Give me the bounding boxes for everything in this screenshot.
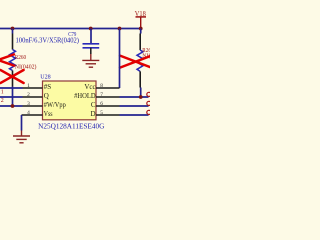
- junction dot rail-vcc: [118, 27, 122, 31]
- junction dot rail-right: [139, 27, 143, 31]
- svg-text:8: 8: [100, 83, 103, 89]
- no-fit cross X2: [0, 70, 23, 83]
- svg-text:C: C: [91, 101, 96, 109]
- svg-text:2: 2: [1, 98, 4, 104]
- wire vss down: [21, 115, 23, 131]
- wire right branch upper: [140, 29, 142, 34]
- resistor R260: [10, 50, 16, 71]
- svg-text:4: 4: [27, 110, 30, 116]
- pin 8: [96, 87, 120, 89]
- svg-text:NI(0402): NI(0402): [15, 64, 37, 71]
- svg-text:U28: U28: [40, 74, 51, 81]
- capacitor C79: [83, 44, 100, 48]
- svg-text:Q: Q: [44, 92, 49, 100]
- pin 3: [23, 105, 43, 107]
- pin 5: [96, 114, 120, 116]
- off-sheet connector row5: [147, 110, 151, 114]
- svg-text:5: 5: [100, 110, 103, 116]
- resistor R260 pin bottom: [12, 71, 14, 87]
- svg-text:1: 1: [27, 83, 30, 89]
- svg-text:Vss: Vss: [44, 110, 53, 118]
- capacitor pin bottom: [90, 48, 92, 54]
- wire row5 right: [120, 114, 149, 116]
- pin 2: [23, 96, 43, 98]
- junction dot rail-left: [11, 27, 15, 31]
- resistor R261: [137, 50, 143, 71]
- no-fit cross X1: [0, 54, 14, 65]
- svg-text:Vcc: Vcc: [84, 83, 95, 91]
- wire cap branch: [90, 29, 92, 44]
- wire row1 left: [0, 87, 23, 89]
- ground under Vss: [13, 131, 30, 143]
- pin 4: [22, 114, 43, 116]
- wire left branch lower: [12, 87, 14, 107]
- wire top power rail: [0, 28, 141, 30]
- no-fit cross X3: [120, 55, 153, 68]
- svg-text:100nF/6.3V/X5R(0402): 100nF/6.3V/X5R(0402): [16, 37, 80, 45]
- svg-text:6: 6: [100, 101, 103, 107]
- junction dot row7: [139, 95, 143, 99]
- resistor R261 pin top: [139, 34, 141, 51]
- wire right branch lower: [140, 88, 142, 98]
- svg-text:#W/Vpp: #W/Vpp: [44, 101, 66, 109]
- svg-text:#S: #S: [44, 83, 52, 91]
- off-sheet connector row7: [147, 92, 151, 96]
- pin 6: [96, 105, 120, 107]
- svg-text:2: 2: [27, 92, 30, 98]
- svg-text:3: 3: [27, 101, 30, 107]
- junction dot rail-cap: [89, 27, 93, 31]
- sheet background: [0, 0, 150, 150]
- wire row6 right: [120, 105, 149, 107]
- svg-text:N25Q128A11ESE40G: N25Q128A11ESE40G: [38, 123, 104, 131]
- wire vcc branch vertical: [119, 29, 121, 89]
- off-sheet connector row6: [147, 101, 151, 105]
- resistor R261 pin bottom: [139, 71, 141, 87]
- pin 7: [96, 96, 120, 98]
- IC U28 body: [43, 81, 97, 120]
- svg-text:7: 7: [100, 92, 103, 98]
- pin 1: [23, 87, 43, 89]
- ground under C79: [82, 54, 99, 67]
- wire row2 left: [0, 96, 23, 98]
- wire row7 right: [120, 96, 149, 98]
- svg-text:#HOLD: #HOLD: [74, 92, 96, 100]
- resistor R260 pin top: [12, 34, 14, 50]
- junction dot row3: [11, 104, 15, 108]
- wire row3 left: [0, 105, 23, 107]
- svg-text:R260: R260: [15, 54, 26, 61]
- wire left branch upper: [12, 29, 14, 34]
- power port V18: [135, 10, 146, 29]
- svg-text:1: 1: [1, 90, 4, 96]
- svg-text:D: D: [91, 110, 96, 118]
